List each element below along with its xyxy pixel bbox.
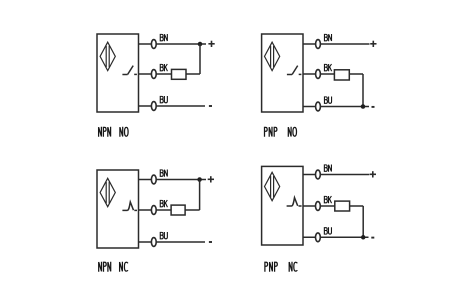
sensor box U1 (NPN NO) (97, 34, 139, 112)
minus terminal (PNP NC) (371, 237, 374, 239)
load resistor RL (PNP NC) (335, 201, 350, 211)
wire BK (NPN NC) (139, 209, 200, 211)
label BU (160, 232, 167, 239)
label BK (160, 200, 167, 207)
label BU (324, 227, 331, 234)
NO switch contact U1 (122, 66, 136, 75)
label BN (324, 165, 331, 172)
label BU (160, 96, 167, 103)
terminal circle BK (NPN NC) (151, 206, 156, 215)
label BK (324, 64, 331, 71)
minus terminal (NPN NO) (209, 105, 212, 107)
terminal circle BN (PNP NC) (316, 170, 321, 179)
terminal circle BU (NPN NC) (151, 238, 156, 247)
label BN (160, 170, 167, 177)
plus terminal (PNP NO) (370, 41, 376, 47)
wire BK (NPN NO) (139, 73, 201, 75)
terminal circle BN (PNP NO) (316, 40, 321, 49)
wire BK (PNP NC) (303, 205, 363, 207)
wire from load down to BU (PNP NC) (362, 206, 364, 237)
load resistor RL (NPN NC) (171, 205, 185, 215)
wire from load to BN junction (199, 180, 201, 211)
sensor box U4 (PNP NC) (262, 166, 303, 245)
label BN (160, 34, 167, 41)
wire BU (PNP NC) (303, 236, 369, 238)
terminal circle BK (NPN NO) (151, 70, 156, 79)
junction node (NPN NC, BN to load) (197, 177, 202, 182)
NC switch contact U4 (287, 198, 302, 206)
plus terminal (NPN NC) (208, 176, 214, 182)
caption PNP NO (265, 127, 297, 137)
junction node (NPN NO, BN to load) (198, 42, 203, 47)
terminal circle BN (NPN NC) (151, 175, 156, 184)
wire BK (PNP NO) (303, 73, 363, 75)
proximity sensor symbol U2 (265, 42, 280, 70)
wire BU (NPN NO) (139, 105, 206, 107)
sensor box U3 (NPN NC) (97, 170, 139, 248)
wire BN (PNP NO) (303, 43, 370, 45)
terminal circle BN (NPN NO) (151, 40, 156, 49)
sensor box U2 (PNP NO) (262, 34, 303, 112)
proximity sensor symbol U1 (100, 42, 115, 70)
caption NPN NO (99, 127, 129, 137)
plus terminal (PNP NC) (370, 171, 376, 177)
wire BU (PNP NO) (303, 106, 369, 108)
junction node (PNP NO, load to BU) (361, 104, 366, 109)
terminal circle BK (PNP NO) (316, 70, 321, 79)
label BK (160, 64, 167, 71)
terminal circle BK (PNP NC) (316, 202, 321, 211)
NC switch contact U3 (122, 202, 137, 210)
wire BN (NPN NC) (139, 179, 207, 181)
terminal circle BU (PNP NO) (316, 102, 321, 111)
caption NPN NC (99, 262, 128, 272)
load resistor RL (PNP NO) (334, 70, 349, 80)
load resistor RL (NPN NO) (172, 69, 187, 79)
proximity sensor symbol U4 (265, 172, 280, 200)
minus terminal (NPN NC) (209, 241, 212, 243)
wire from load to BN junction (199, 44, 201, 74)
proximity sensor symbol U3 (100, 178, 115, 206)
wire BN (PNP NC) (303, 174, 369, 176)
terminal circle BU (NPN NO) (151, 102, 156, 111)
terminal circle BU (PNP NC) (316, 233, 321, 242)
plus terminal (NPN NO) (208, 41, 214, 47)
wire BN (NPN NO) (139, 43, 207, 45)
minus terminal (PNP NO) (372, 106, 375, 108)
caption PNP NC (265, 262, 297, 272)
junction node (PNP NC, load to BU) (361, 235, 366, 240)
NO switch contact U2 (287, 66, 302, 75)
label BK (324, 196, 331, 203)
label BU (324, 97, 331, 104)
label BN (324, 34, 331, 41)
wire BU (NPN NC) (139, 241, 206, 243)
wire from load down to BU (PNP NO) (362, 74, 364, 107)
